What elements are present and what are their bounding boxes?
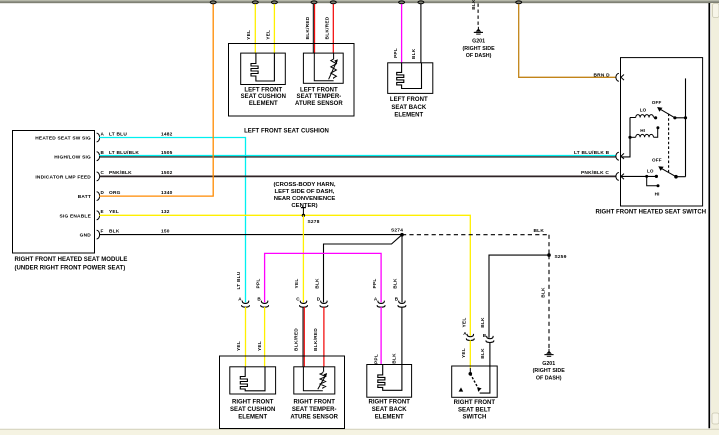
wire YEL connector B to RF cushion element — [264, 307, 266, 367]
wire A LT BLU (cyan) horizontal + down to connector — [99, 138, 245, 303]
top edge oval connectors — [252, 1, 521, 4]
svg-text:BLK: BLK — [411, 48, 417, 59]
svg-text:S274: S274 — [391, 228, 403, 234]
inline connector pin A (LT BLU) at x=245.5 — [236, 271, 249, 307]
ground G201 (top, right side of dash) — [463, 27, 496, 59]
svg-text:YEL: YEL — [246, 30, 252, 40]
svg-text:BATT: BATT — [78, 194, 91, 200]
inline connector pin C (YEL) at x=303.5 — [294, 279, 307, 308]
inline connector pin D (BLK) at x=323.9 — [315, 278, 328, 307]
svg-text:B: B — [101, 150, 105, 155]
svg-text:YEL: YEL — [461, 318, 467, 328]
wire RED connector D to RF temp sensor — [323, 307, 325, 367]
belt switch indicator triangle — [459, 387, 464, 391]
wire YEL branch from S278 down to connector C — [302, 215, 304, 302]
svg-text:BLK/RED: BLK/RED — [305, 16, 311, 39]
svg-text:LT BLU: LT BLU — [109, 131, 127, 137]
svg-text:SEAT CUSHION: SEAT CUSHION — [230, 407, 275, 413]
svg-text:SIG ENABLE: SIG ENABLE — [59, 213, 91, 219]
switch pin B internal feed to resistors — [621, 118, 632, 157]
wire BLK dashed S259 down to ground G201 — [541, 255, 549, 349]
wire E YEL horizontal — [99, 215, 470, 335]
svg-text:GND: GND — [80, 233, 92, 239]
wire BLK dashed to ground G201 (top) — [471, 0, 478, 27]
svg-text:LT BLU: LT BLU — [236, 271, 242, 289]
svg-text:A: A — [238, 297, 242, 302]
wire BRN from top to switch pin D — [519, 4, 617, 77]
svg-text:ATURE SENSOR: ATURE SENSOR — [290, 414, 338, 420]
wire B LT BLU/BLK pair to switch pin B — [99, 156, 616, 157]
svg-text:YEL: YEL — [257, 341, 263, 351]
right front seat cushion element box — [230, 367, 276, 394]
module pin B (HIGH/LOW SIG) — [54, 150, 172, 161]
wire YEL to LF cushion element (left) — [246, 4, 255, 53]
right front seat belt switch box — [452, 366, 498, 397]
svg-text:(RIGHT SIDE: (RIGHT SIDE — [533, 368, 566, 374]
svg-text:D: D — [317, 297, 321, 302]
splice S259 — [547, 253, 566, 260]
svg-text:SEAT TEMPER-: SEAT TEMPER- — [297, 94, 342, 100]
svg-text:LEFT FRONT: LEFT FRONT — [244, 88, 282, 94]
svg-text:SWITCH: SWITCH — [462, 415, 486, 421]
switch main vertical feed line — [685, 78, 687, 176]
svg-text:F: F — [101, 228, 104, 233]
below-connector wire labels — [236, 328, 397, 364]
switch caption — [595, 210, 706, 216]
wire BLK labels + inline connector B to belt switch — [480, 317, 494, 366]
wire BLK branch S274 to connector D — [324, 235, 403, 303]
svg-text:BLK/RED: BLK/RED — [313, 328, 319, 351]
svg-text:132: 132 — [161, 209, 170, 215]
svg-text:B: B — [483, 333, 487, 338]
belt switch contact and arm — [469, 366, 490, 393]
svg-text:C: C — [101, 170, 105, 175]
svg-text:RIGHT FRONT HEATED SEAT MODULE: RIGHT FRONT HEATED SEAT MODULE — [15, 257, 128, 263]
svg-text:PPL: PPL — [255, 279, 261, 289]
svg-text:E: E — [101, 209, 104, 214]
inline connector pin B (PPL) at x=264.6 — [255, 279, 268, 308]
RF temp sensor leads — [303, 367, 323, 391]
svg-text:BLK: BLK — [391, 353, 397, 364]
svg-text:RIGHT FRONT: RIGHT FRONT — [368, 399, 410, 405]
svg-text:ORG: ORG — [109, 190, 121, 196]
lower switch arm with arrow — [658, 166, 685, 178]
upper switch OFF label — [652, 100, 662, 105]
svg-text:YEL: YEL — [461, 348, 467, 358]
wire BLK from LF seat back element — [411, 4, 421, 63]
svg-text:SEAT CUSHION: SEAT CUSHION — [241, 94, 286, 100]
left front seat back element box — [388, 63, 433, 94]
svg-text:OFF: OFF — [652, 158, 662, 163]
svg-text:YEL: YEL — [236, 341, 242, 351]
module pin C (INDICATOR LMP FEED) — [35, 170, 172, 181]
svg-text:BRN D: BRN D — [594, 72, 611, 78]
svg-text:NEAR CONVENIENCE: NEAR CONVENIENCE — [274, 196, 336, 202]
svg-text:HI: HI — [655, 191, 660, 196]
svg-text:ELEMENT: ELEMENT — [249, 101, 278, 107]
upper switch arm with arrow (OFF position) — [657, 107, 675, 118]
svg-text:BLK/RED: BLK/RED — [293, 328, 299, 351]
switch pin C (PNK/BLK) — [581, 170, 624, 181]
svg-text:BLK: BLK — [480, 348, 486, 359]
RF seat cushion element symbol — [240, 367, 265, 391]
svg-text:BLK: BLK — [541, 287, 547, 298]
module pin D (BATT) — [78, 190, 173, 201]
lower switch HI contact — [647, 176, 660, 196]
svg-text:HI: HI — [640, 128, 645, 133]
svg-text:YEL: YEL — [294, 279, 300, 289]
svg-text:BLK: BLK — [109, 228, 120, 234]
svg-text:HEATED SEAT SW SIG: HEATED SEAT SW SIG — [35, 136, 91, 142]
left front seat cushion outer box — [229, 44, 355, 117]
wire PPL to LF seat back element — [393, 4, 401, 63]
svg-text:LO: LO — [647, 169, 654, 174]
svg-text:ATURE SENSOR: ATURE SENSOR — [295, 101, 343, 107]
wire D ORG up to top connector — [99, 4, 213, 196]
svg-text:BLK: BLK — [480, 317, 486, 328]
svg-text:C: C — [296, 297, 300, 302]
module pin E (SIG ENABLE) — [59, 209, 169, 220]
svg-text:CENTER): CENTER) — [291, 203, 317, 209]
window top border bar — [0, 0, 719, 3]
HI resistor (upper switch) — [630, 126, 659, 137]
svg-text:OF DASH): OF DASH) — [466, 53, 492, 59]
RF seat back element labels — [368, 399, 410, 420]
ground G201 (bottom right) — [533, 349, 566, 382]
svg-text:BLK: BLK — [471, 0, 477, 10]
svg-text:(UNDER RIGHT FRONT POWER SEAT): (UNDER RIGHT FRONT POWER SEAT) — [15, 266, 126, 272]
right front seat back element box — [367, 365, 412, 398]
svg-text:A: A — [101, 131, 105, 136]
svg-text:BLK: BLK — [393, 278, 399, 289]
svg-text:LEFT SIDE OF DASH,: LEFT SIDE OF DASH, — [275, 189, 335, 195]
svg-text:SEAT BACK: SEAT BACK — [372, 407, 408, 413]
splice S278 on YEL wire — [301, 208, 320, 225]
svg-text:G201: G201 — [472, 39, 485, 45]
switch box: right front heated seat switch — [621, 58, 703, 206]
svg-text:LEFT FRONT: LEFT FRONT — [300, 88, 338, 94]
left front seat cushion element box — [241, 53, 286, 84]
LF seat cushion element symbol — [251, 53, 274, 81]
wire BLK S259 to seat belt switch — [489, 255, 549, 338]
svg-text:LT BLU/BLK B: LT BLU/BLK B — [574, 150, 610, 156]
svg-text:A: A — [463, 331, 467, 336]
LO resistor (upper switch) — [630, 108, 657, 120]
wire YEL connector A to RF cushion element — [245, 307, 247, 367]
svg-text:BLK: BLK — [315, 278, 321, 289]
module: right front heated seat module box — [13, 131, 95, 254]
svg-text:OFF: OFF — [652, 100, 662, 105]
svg-text:A: A — [374, 297, 378, 302]
RF temp sensor thermistor — [318, 372, 327, 390]
LF temp sensor labels — [295, 88, 343, 107]
svg-text:LO: LO — [640, 108, 647, 113]
svg-text:ELEMENT: ELEMENT — [394, 113, 423, 119]
lower switch OFF label — [652, 158, 662, 163]
wire BLK dashed S274 to S259 — [402, 228, 549, 255]
RF seat back element symbol — [378, 365, 402, 391]
wire BLK S274 down to seat back connector B — [401, 235, 403, 303]
svg-text:SEAT TEMPER-: SEAT TEMPER- — [292, 407, 337, 413]
svg-text:B: B — [257, 297, 261, 302]
LF cushion element labels — [241, 88, 286, 107]
svg-text:RIGHT FRONT: RIGHT FRONT — [454, 400, 496, 406]
svg-text:SEAT BELT: SEAT BELT — [458, 407, 491, 413]
svg-text:1502: 1502 — [161, 170, 173, 176]
svg-text:D: D — [101, 190, 105, 195]
upper switch: junction dots — [673, 116, 687, 119]
svg-text:INDICATOR LMP FEED: INDICATOR LMP FEED — [35, 175, 91, 181]
svg-text:B: B — [395, 297, 399, 302]
top oval connector for ORG wire — [210, 1, 216, 4]
svg-text:(RIGHT SIDE: (RIGHT SIDE — [463, 46, 496, 52]
svg-text:BLK/RED: BLK/RED — [325, 16, 331, 39]
LF seat back element labels — [390, 97, 428, 118]
wire PPL jumper connector B to seat back connector A — [265, 253, 382, 302]
svg-text:OF DASH): OF DASH) — [536, 376, 562, 382]
wire BLK/RED pair connector C to RF temp sensor — [303, 307, 304, 367]
LF seat back element symbol — [397, 63, 422, 89]
svg-text:RIGHT FRONT: RIGHT FRONT — [293, 399, 335, 405]
right front seat temperature sensor box — [294, 367, 335, 394]
svg-text:YEL: YEL — [109, 209, 119, 215]
belt switch labels — [454, 400, 496, 420]
left front seat temperature sensor box — [303, 53, 343, 83]
RF cushion element labels — [230, 399, 275, 420]
svg-text:S278: S278 — [308, 219, 320, 225]
right front seat cushion outer box — [220, 356, 345, 429]
svg-text:RIGHT FRONT: RIGHT FRONT — [232, 399, 274, 405]
svg-text:PNK/BLK C: PNK/BLK C — [581, 170, 609, 176]
wire YEL to LF cushion element (right) — [266, 4, 275, 53]
wire YEL labels + inline connector A to belt switch — [461, 318, 474, 369]
svg-text:ELEMENT: ELEMENT — [375, 414, 404, 420]
svg-text:PNK/BLK: PNK/BLK — [109, 170, 132, 176]
wire BLK/RED to LF temp sensor (left pair) — [305, 4, 315, 53]
wire PPL connector A to RF seat back element — [380, 307, 382, 365]
RF temp sensor labels — [290, 399, 338, 420]
wire C PNK/BLK to switch pin C — [99, 175, 616, 177]
svg-text:LEFT FRONT SEAT CUSHION: LEFT FRONT SEAT CUSHION — [244, 129, 329, 135]
switch pin D (BRN) — [594, 72, 625, 81]
module pin F (GND) — [80, 228, 170, 239]
svg-text:ELEMENT: ELEMENT — [238, 414, 267, 420]
svg-text:(CROSS-BODY HARN,: (CROSS-BODY HARN, — [273, 182, 335, 188]
svg-text:BLK: BLK — [534, 228, 545, 234]
cross-body harness note — [273, 182, 335, 209]
inline connector pin B (BLK) at x=401.9 — [393, 278, 406, 307]
LF temp sensor thermistor — [329, 58, 338, 79]
svg-text:150: 150 — [161, 228, 170, 234]
switch pin B (LT BLU/BLK) — [574, 150, 624, 160]
svg-text:S259: S259 — [555, 254, 567, 260]
svg-text:SEAT BACK: SEAT BACK — [391, 105, 427, 111]
module pin A (HEATED SEAT SW SIG) — [35, 131, 172, 142]
svg-text:HIGH/LOW SIG: HIGH/LOW SIG — [54, 154, 91, 160]
svg-text:G201: G201 — [542, 361, 555, 367]
diagram right border line — [708, 3, 710, 428]
svg-text:YEL: YEL — [266, 30, 272, 40]
wire BLK connector B to RF seat back element — [401, 307, 403, 365]
bottom scrollbar strip — [0, 429, 719, 435]
splice S274 on BLK wire — [391, 228, 404, 237]
lower switch LO contact — [621, 169, 659, 178]
right scrollbar track — [711, 3, 719, 435]
svg-text:PPL: PPL — [372, 279, 378, 289]
svg-text:1340: 1340 — [161, 190, 173, 196]
wire F BLK horizontal to S274 — [99, 234, 402, 236]
LF temp sensor leads — [314, 53, 333, 81]
wire RED (BLK/RED) to LF temp sensor (right) — [325, 4, 334, 53]
svg-text:PPL: PPL — [393, 48, 399, 58]
svg-text:LEFT FRONT: LEFT FRONT — [390, 97, 428, 103]
module caption — [15, 257, 128, 272]
ganged switch dashed link — [668, 114, 670, 173]
left front seat cushion caption — [244, 129, 329, 135]
svg-text:RIGHT FRONT HEATED SEAT SWITCH: RIGHT FRONT HEATED SEAT SWITCH — [595, 210, 706, 216]
svg-text:1482: 1482 — [161, 131, 173, 137]
svg-text:PPL: PPL — [374, 354, 380, 364]
inline connector pin A (PPL) at x=381.1 — [372, 279, 385, 308]
